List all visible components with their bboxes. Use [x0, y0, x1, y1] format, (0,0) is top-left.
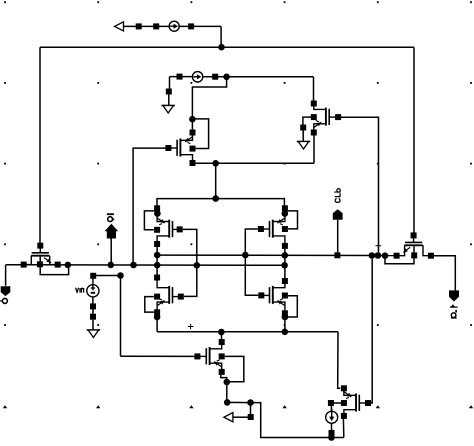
pin square I0 left pin — [153, 23, 159, 29]
wire cascode net (y=255) — [157, 254, 397, 256]
junction bottom rail — [328, 434, 335, 441]
pin square I1 right pin — [212, 74, 218, 80]
pin square I0 right pin — [188, 23, 194, 29]
junction top rail / bias branch — [218, 44, 225, 51]
transistor M6 (upper-right load) — [263, 208, 285, 246]
wire down to load gate node — [215, 163, 217, 198]
wire M7 bulk loop — [225, 356, 244, 381]
pin square on bias wire — [136, 23, 142, 29]
transistor M2 (diode-connected mirror) — [171, 133, 193, 164]
pin square vin- pin — [90, 303, 96, 309]
wire M7 node down — [226, 382, 228, 402]
wire right rail down to M9 gate — [413, 47, 415, 233]
origin marker cross (M4 gate wire) — [376, 243, 382, 249]
wire jog into M10 drain pin — [338, 385, 341, 388]
wire M2 drain-bulk tie loop — [192, 119, 208, 149]
wire M2 source to M4 source — [196, 162, 314, 164]
terminal arrow (bottom bias) — [224, 413, 233, 422]
ground symbol (M4) — [297, 142, 311, 150]
wire M1 bulk loop to source node — [40, 257, 68, 275]
wire vin bottom stub — [92, 297, 94, 304]
pin square ground 2 — [300, 125, 306, 131]
wire CLb flag stem — [337, 220, 339, 253]
wire I1 right to M4 drain column — [203, 76, 314, 78]
wire M9 bulk loop to cascode net — [385, 246, 414, 264]
wire down to M4 drain — [313, 77, 315, 101]
junction vin node corner — [117, 272, 124, 279]
wire stub ground 3 — [92, 320, 94, 330]
junction input net / M2 gate rail — [130, 262, 137, 269]
wire left pin column rail — [156, 247, 158, 275]
wire load top node — [157, 199, 284, 206]
wire Q1 flag stem — [110, 239, 112, 265]
wire M4 bulk to ground 2 — [303, 117, 311, 124]
wire bottom rail right — [332, 437, 344, 439]
wire M10 gate up to cascode net — [365, 259, 372, 403]
transistor M4 (mirror output) — [314, 104, 336, 133]
junction input net / gate column — [194, 262, 201, 269]
junction cascode/M4 gate wire — [375, 252, 382, 259]
label output terminal name — [450, 304, 458, 318]
junction input net / Q1 flag — [108, 262, 115, 269]
net flag CLb (filled up arrow) — [333, 209, 343, 220]
pin square CLb flag — [334, 252, 340, 258]
wire M10 source down — [342, 419, 344, 438]
origin marker cross (tail) — [188, 324, 194, 330]
wire tail net down to M10 drain — [337, 332, 339, 386]
wire I2 bottom stub — [331, 423, 333, 430]
transistor M1 (input device) — [24, 248, 58, 265]
wire bias node down to bottom rail — [251, 403, 332, 438]
terminal IN arrow (top-left bias input) — [115, 22, 124, 31]
ground symbol (vin) — [87, 330, 101, 338]
junction cascode/left rail — [154, 252, 161, 259]
wire bias terminal to current source I0 — [124, 25, 169, 27]
junction cascode/M9 bulk tie — [382, 252, 389, 259]
wire M4 gate right and down to cascode net — [341, 117, 379, 252]
wire I1 left lead — [170, 76, 193, 78]
wire M9 right lead to output terminal — [434, 256, 455, 291]
wire M3 drain-bulk tie loop — [144, 211, 157, 230]
current source I1 — [192, 72, 202, 82]
wire left pin column rail lower — [156, 315, 158, 331]
wire M5 bulk tie loop — [145, 297, 154, 313]
wire right pin column rail — [284, 249, 286, 278]
pin square I1 left pin — [177, 74, 183, 80]
wire pin up to bias node — [250, 403, 252, 414]
wire M3/M5 gate column (left) — [183, 229, 197, 296]
junction M6 drain tie — [282, 210, 289, 217]
wire M7 source to node — [221, 375, 227, 382]
wire I0 right to corner — [179, 25, 221, 27]
junction source tie node — [212, 160, 219, 167]
wire I2 to bottom rail — [331, 436, 333, 438]
wire M2 drain node to drain pin — [191, 119, 193, 131]
wire M6/M8 gate column (right) — [245, 229, 258, 295]
junction cascode/M8 gate rail — [369, 252, 376, 259]
junction I1 output node — [223, 74, 230, 81]
wire down to input terminal — [5, 265, 7, 286]
wire left rail down to M1 gate — [39, 47, 41, 243]
junction tail / M7 drain — [218, 329, 225, 336]
label CLb — [335, 189, 341, 203]
junction M5 drain node — [154, 314, 161, 321]
wire right pin column rail lower — [284, 316, 286, 332]
wire tail node net — [157, 331, 338, 333]
junction cascode/right rail — [282, 252, 289, 259]
voltage source vin (sine) — [87, 276, 99, 297]
junction tail / right rail — [282, 329, 289, 336]
wire up to M4 source pin — [313, 136, 315, 164]
wire stub ground 2 — [302, 131, 304, 142]
wire input net segment — [27, 264, 68, 266]
ground symbol (I1) — [161, 106, 175, 114]
pin square ground 1 — [166, 89, 172, 95]
wire M6 drain-bulk tie loop — [285, 211, 298, 229]
transistor M7 — [200, 342, 222, 372]
label Q1 — [107, 213, 114, 221]
wire stub ground 1 — [168, 95, 170, 106]
transistor M9 (output device) — [397, 238, 431, 256]
wire top rail net vb1 — [40, 46, 414, 48]
wire lower bias node — [227, 401, 250, 403]
transistor M5 (lower-left) — [157, 278, 178, 313]
junction lower bias node left — [224, 399, 231, 406]
wire M8b bulk tie loop — [285, 296, 297, 317]
wire I1 node down to M2 drain — [192, 77, 226, 119]
pin square bottom terminal — [248, 414, 254, 420]
transistor M3 (upper-left load) — [157, 208, 177, 244]
junction lower bias node right — [247, 399, 254, 406]
junction input net / right rail — [281, 262, 288, 269]
wire to M7 gate pin — [121, 355, 195, 357]
transistor M8b (lower-right) — [264, 281, 285, 313]
wire vin node down to M7 gate — [120, 276, 122, 357]
wire M2 gate down-left rail to input net — [133, 148, 171, 262]
junction M3 drain tie — [154, 210, 161, 217]
wire I2 top to M10 bulk — [331, 402, 347, 404]
current source I0 (top) — [169, 21, 179, 31]
pin square I2 top pin — [328, 400, 334, 406]
junction M7 source node — [224, 379, 231, 386]
junction input net / M1 bulk — [65, 262, 72, 269]
wire down to top rail — [220, 26, 222, 47]
net flag Q1 (filled up arrow) — [105, 224, 119, 239]
wire input net to terminal corner — [6, 264, 24, 266]
label vin — [76, 288, 84, 292]
junction M2 drain node — [189, 116, 196, 123]
wire bottom terminal to pin — [233, 416, 248, 418]
pin square vin+ pin — [90, 273, 96, 279]
junction load top node — [212, 195, 219, 202]
terminal flag OUT (filled down arrow) — [449, 290, 459, 301]
label input terminal name — [0, 298, 7, 303]
pin square ground 3 — [90, 314, 96, 320]
terminal flag IN- (filled down arrow) — [1, 286, 11, 296]
wire vin top to M7 gate rail — [94, 275, 121, 277]
junction cascode/gate column right — [242, 252, 249, 259]
pin square I2 bottom pin — [329, 430, 335, 436]
transistor M10 (tail mirror) — [344, 388, 366, 416]
current source I2 (bottom) — [326, 408, 338, 423]
wire down to ground 1 — [169, 77, 171, 89]
junction M8b drain node — [282, 314, 289, 321]
wire down to M7 drain pin — [221, 332, 223, 339]
wire vin- to ground 3 — [92, 309, 94, 313]
wire input net main run — [68, 264, 285, 266]
junction input net / left rail — [154, 262, 161, 269]
wire I2 top stub — [330, 406, 332, 411]
